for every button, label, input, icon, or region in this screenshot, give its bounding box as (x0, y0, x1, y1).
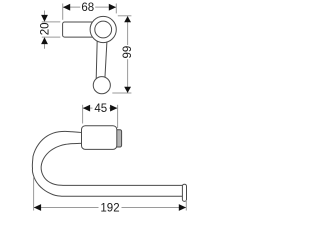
wire hook (front view) (32, 131, 182, 196)
dimension 68: dimension line (63, 6, 116, 8)
wall block (front view) (82, 126, 117, 150)
dimension 20: dimension line tails (44, 11, 46, 49)
spindle tab right of block (front view) (114, 130, 122, 147)
svg-text:68: 68 (81, 2, 94, 14)
wall rosette outer circle (top view) (90, 16, 116, 42)
svg-text:20: 20 (39, 23, 51, 36)
dimension 99: arrowheads (124, 16, 131, 22)
dimension 45: extension lines (83, 105, 118, 128)
dimension 45: dimension line (83, 107, 117, 109)
dimension 192: dimension line (34, 207, 186, 209)
wire stem (top view, post between rosette and ball) (96, 40, 107, 79)
wall rosette inner circle (top view) (95, 21, 112, 38)
arm (top view horizontal bar) (63, 22, 97, 37)
dimension 99: dimension line (127, 16, 129, 92)
dimension 45: arrowheads (83, 105, 90, 112)
dimension 192: arrowheads (34, 204, 41, 211)
svg-text:99: 99 (122, 46, 134, 59)
svg-text:45: 45 (94, 103, 107, 115)
end cap of bar (front view) (182, 184, 186, 201)
dimension 68: extension lines (63, 4, 117, 20)
dimension 68: arrowheads (63, 4, 70, 11)
dimension 20: arrowheads (41, 15, 48, 22)
ball end (top view) (93, 77, 110, 94)
dimension 20: extension lines (42, 22, 61, 37)
dimension 99: extension lines (112, 16, 131, 93)
dimension 192: extension lines (34, 177, 187, 211)
svg-text:192: 192 (100, 203, 119, 215)
